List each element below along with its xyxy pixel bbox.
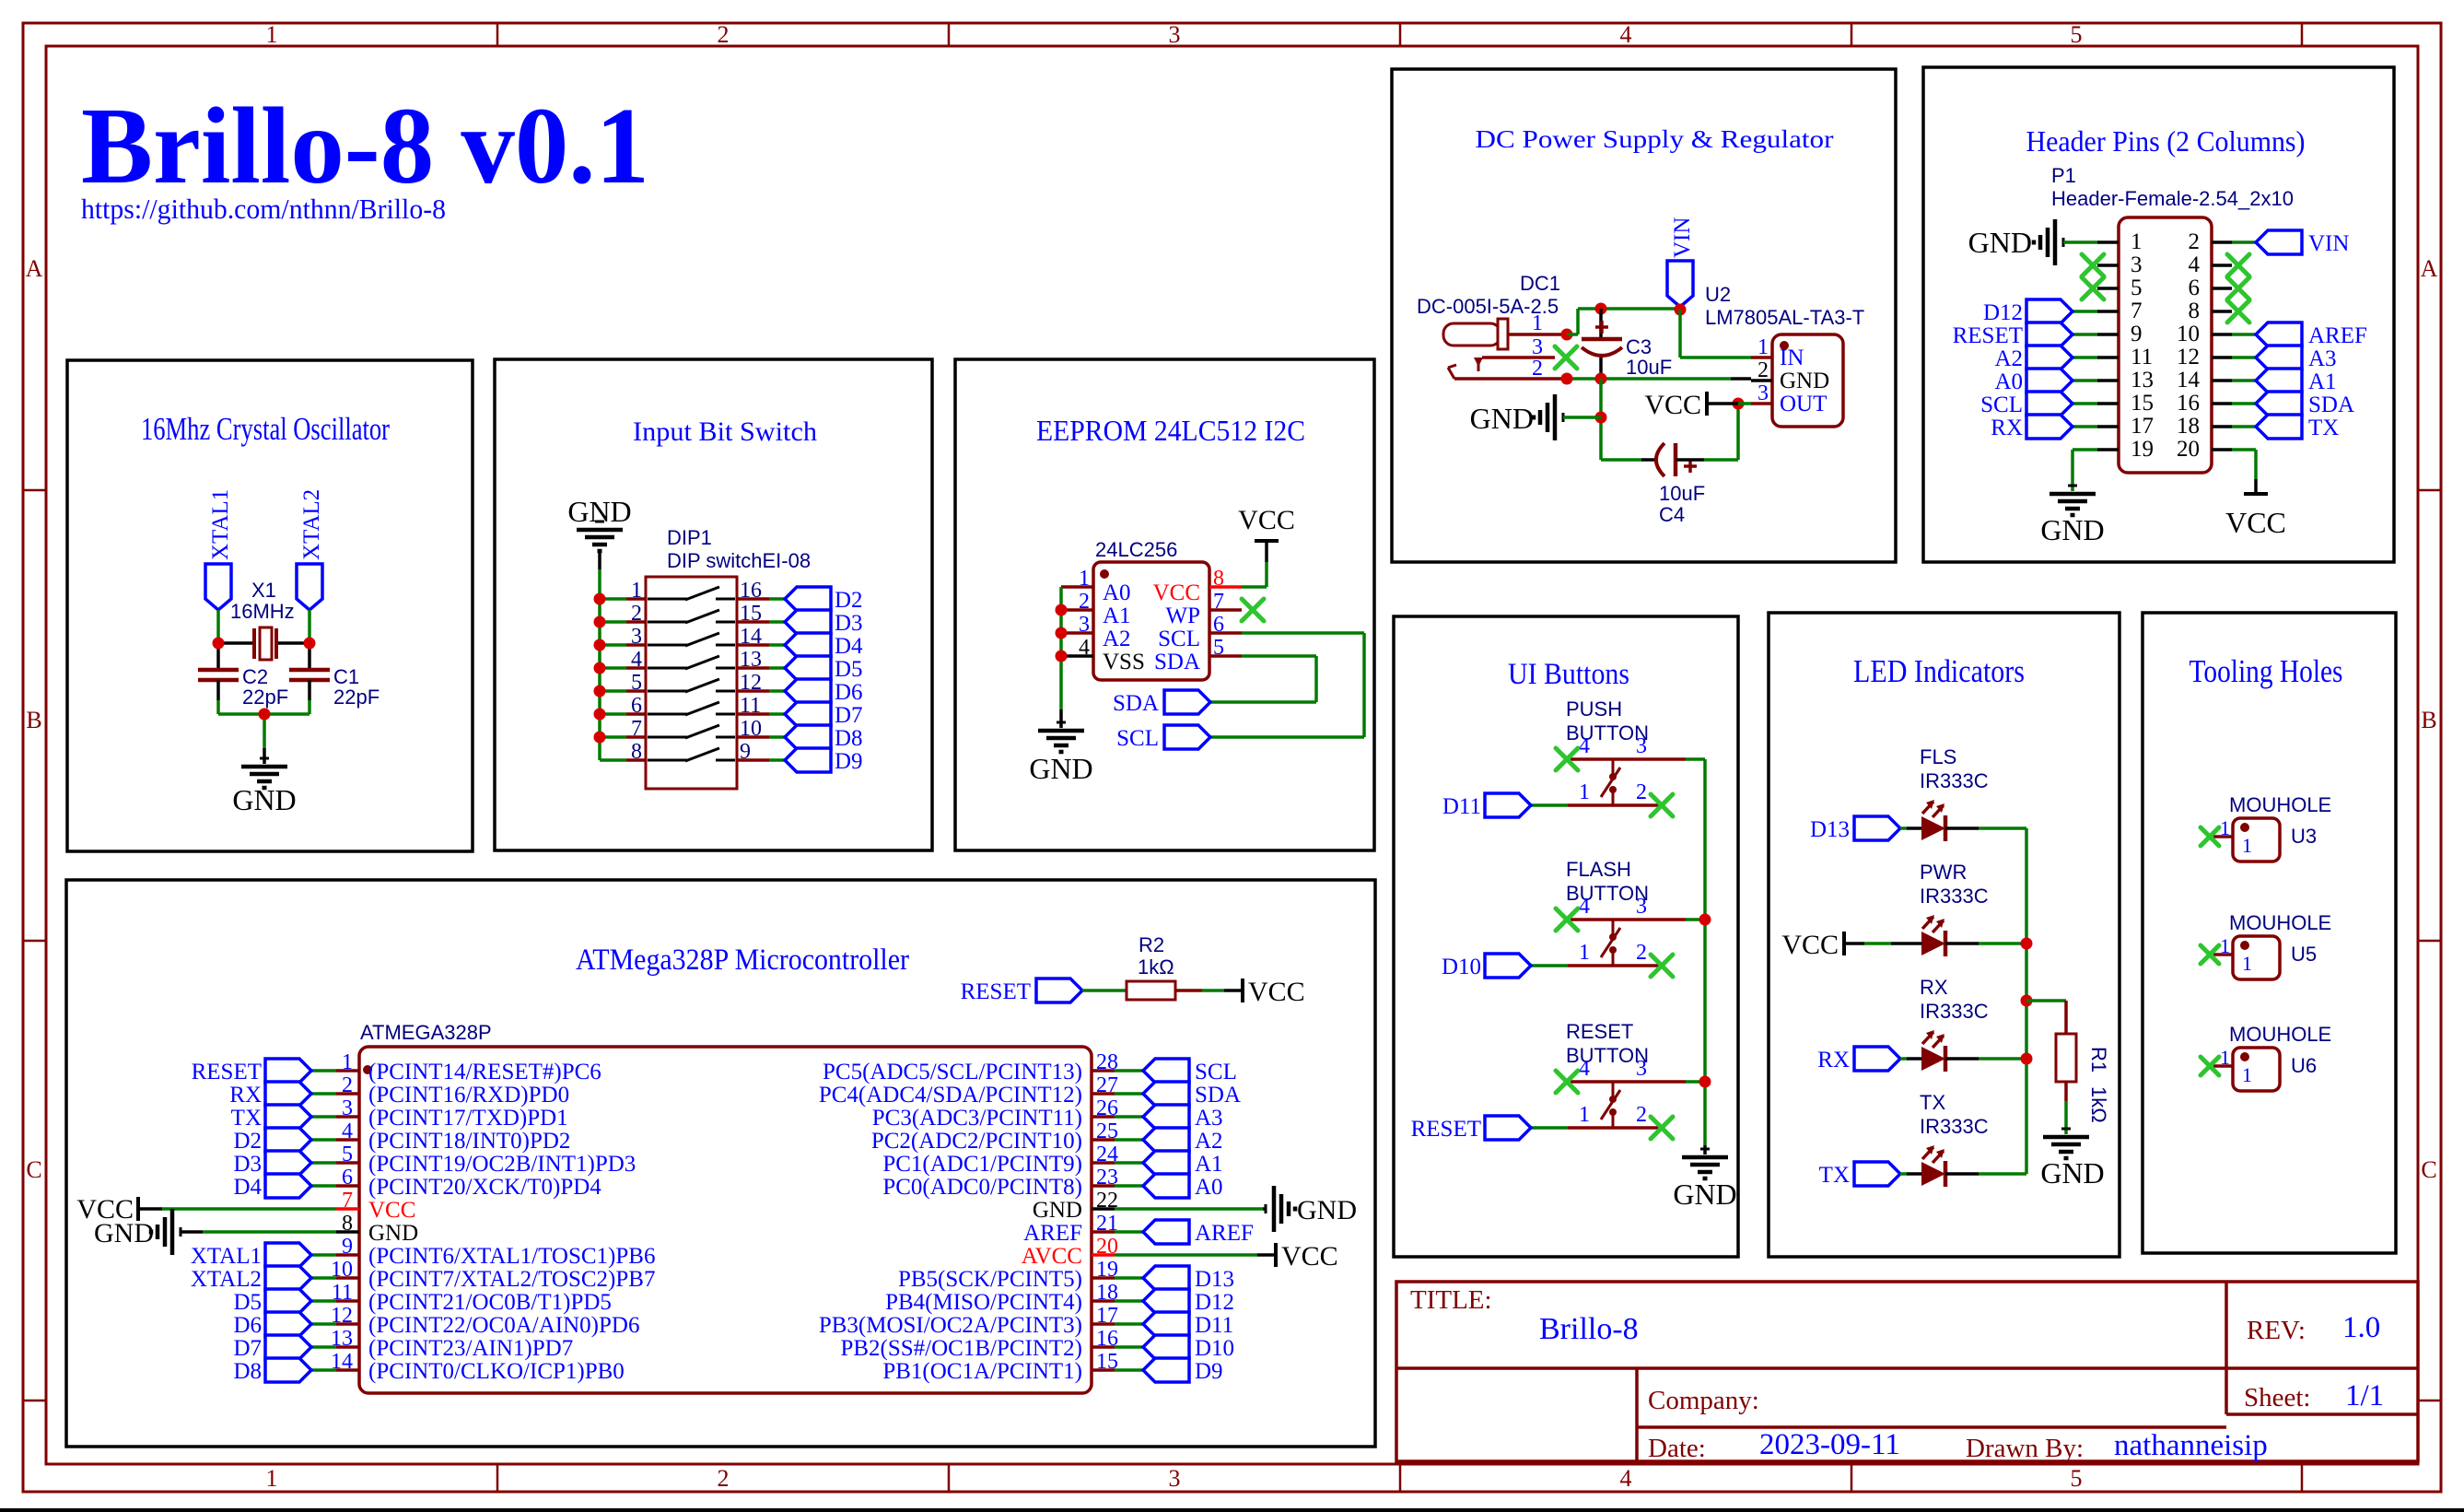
junction VIN node: [1675, 304, 1687, 316]
svg-text:16: 16: [740, 579, 762, 603]
title block dividers: [1396, 1282, 2418, 1461]
label LM7805AL-TA3-T: [1705, 306, 1864, 329]
junction C3 top: [1595, 303, 1607, 315]
wire DIP pin 13 to D5: [769, 666, 785, 670]
svg-text:2: 2: [1636, 1103, 1647, 1127]
wire P1 to A3: [2232, 356, 2256, 359]
wire led FLS cathode to bus: [1945, 826, 2026, 830]
label P1: [2051, 164, 2076, 187]
svg-text:D13: D13: [1195, 1267, 1234, 1292]
P1 pin 15: [2097, 391, 2154, 416]
24LC256 pin 7 (WP): [1166, 590, 1243, 628]
svg-text:1: 1: [1579, 941, 1590, 965]
wire gnd bus to DIP pin 3: [600, 643, 626, 647]
wire ui buttons gnd bus: [1703, 759, 1707, 1155]
svg-text:UI Buttons: UI Buttons: [1508, 658, 1629, 691]
wire led PWR cathode to bus: [1945, 942, 2026, 945]
label PWR IR333C: [1920, 885, 1989, 908]
wire P1 to A0: [2073, 379, 2097, 382]
svg-text:1: 1: [2242, 834, 2252, 857]
svg-text:1: 1: [266, 21, 278, 48]
svg-text:1: 1: [1532, 311, 1543, 335]
svg-text:SDA: SDA: [2308, 393, 2354, 417]
no-connect P1 pin 4: [2227, 254, 2249, 276]
no-connect P1 pin 3: [2082, 254, 2104, 276]
net flag XTAL1 mcu: [191, 1243, 311, 1269]
label DIP switchEI-08: [667, 549, 811, 572]
power symbol VCC r2: [1243, 977, 1305, 1007]
junction flash button gnd: [1699, 914, 1711, 926]
svg-text:VCC: VCC: [368, 1198, 415, 1223]
svg-text:GND: GND: [1033, 1198, 1082, 1223]
svg-text:GND: GND: [368, 1221, 418, 1246]
net flag SCL: [1116, 725, 1210, 751]
section title Tooling Holes: [2190, 653, 2343, 689]
section title LED Indicators: [1853, 653, 2025, 689]
svg-text:SCL: SCL: [1158, 627, 1200, 651]
label PWR: [1920, 861, 1967, 884]
svg-text:1: 1: [2220, 1046, 2230, 1069]
wire gnd stem dip: [598, 553, 601, 599]
svg-text:RESET: RESET: [1566, 1020, 1633, 1043]
wire C4 right: [1676, 404, 1738, 460]
DIP1 switch pole row 2: [648, 610, 735, 623]
push button RESET top contacts pins 4,3: [1571, 1057, 1686, 1082]
net flag D9 mcu right: [1143, 1358, 1223, 1384]
net flag VIN header: [2256, 230, 2349, 256]
label C3 value 10uF: [1626, 356, 1672, 379]
wire P1 to A1: [2232, 379, 2256, 382]
svg-text:3: 3: [1636, 734, 1647, 758]
ground symbol R1: [2043, 1129, 2089, 1158]
svg-text:14: 14: [2177, 368, 2201, 393]
svg-text:XTAL2: XTAL2: [191, 1267, 262, 1292]
svg-text:1: 1: [342, 1050, 353, 1074]
svg-text:17: 17: [2131, 414, 2154, 439]
wire R2 to VCC: [1175, 989, 1243, 992]
section box LED Indicators: [1769, 613, 2120, 1257]
svg-text:GND: GND: [1470, 402, 1534, 435]
net flag D10 button: [1442, 954, 1531, 979]
label DC-005I-5A-2.5: [1417, 295, 1559, 318]
svg-text:OUT: OUT: [1780, 392, 1827, 416]
IC ATMEGA328P body: [359, 1047, 1092, 1393]
label PUSH BUTTON: [1566, 697, 1649, 744]
svg-text:PB5(SCK/PCINT5): PB5(SCK/PCINT5): [898, 1267, 1082, 1292]
label C2: [242, 665, 268, 688]
svg-text:GND: GND: [1297, 1195, 1357, 1225]
resistor R2: [1127, 981, 1175, 1000]
svg-text:18: 18: [2177, 414, 2200, 439]
svg-text:(PCINT16/RXD)PD0: (PCINT16/RXD)PD0: [368, 1083, 569, 1108]
svg-text:(PCINT19/OC2B/INT1)PD3: (PCINT19/OC2B/INT1)PD3: [368, 1152, 636, 1177]
svg-text:24LC256: 24LC256: [1095, 538, 1177, 561]
svg-text:D8: D8: [835, 726, 863, 751]
svg-text:2023-09-11: 2023-09-11: [1759, 1428, 1900, 1461]
no-connect PUSH pin 4: [1556, 748, 1578, 770]
P1 pin 11: [2097, 345, 2153, 369]
section box Input Bit Switch: [495, 359, 932, 850]
svg-text:13: 13: [2131, 368, 2154, 393]
svg-text:7: 7: [2131, 299, 2143, 323]
svg-text:A1: A1: [1195, 1152, 1223, 1177]
svg-text:D9: D9: [1195, 1359, 1223, 1384]
label C1: [333, 665, 359, 688]
svg-text:1: 1: [2131, 229, 2143, 254]
svg-text:C4: C4: [1659, 503, 1685, 526]
net flag A3 mcu right: [1143, 1105, 1223, 1131]
svg-text:IR333C: IR333C: [1920, 885, 1989, 908]
svg-text:D12: D12: [1195, 1290, 1234, 1315]
svg-text:4: 4: [1620, 21, 1632, 48]
24LC256 pin 5 (SDA): [1154, 636, 1242, 674]
svg-text:P1: P1: [2051, 164, 2076, 187]
ATMEGA328P pin 19 (PB5(SCK/PCINT5)): [898, 1258, 1118, 1292]
wire D4 to pin 6: [311, 1184, 336, 1188]
svg-text:PC0(ADC0/PCINT8): PC0(ADC0/PCINT8): [882, 1175, 1082, 1200]
svg-text:3: 3: [1636, 1057, 1647, 1081]
svg-text:A0: A0: [1103, 580, 1131, 605]
wire A2 to pin 25: [1115, 1138, 1143, 1142]
DIP1 pin 4: [626, 648, 646, 672]
svg-text:GND: GND: [567, 495, 631, 528]
title block TITLE label: [1410, 1285, 1492, 1315]
wire XTAL1 to node: [216, 610, 220, 643]
svg-text:(PCINT7/XTAL2/TOSC2)PB7: (PCINT7/XTAL2/TOSC2)PB7: [368, 1267, 655, 1292]
svg-text:VCC: VCC: [1153, 580, 1200, 605]
section title 16Mhz Crystal Oscillator: [141, 411, 390, 447]
ATMEGA328P pin 26 (PC3(ADC3/PCINT11)): [872, 1096, 1118, 1131]
svg-text:B: B: [26, 707, 41, 733]
wire DC1 pin1 up to rail: [1567, 309, 1680, 334]
push button PUSH actuator: [1601, 759, 1620, 805]
wire VCC to led: [1864, 942, 1921, 945]
net flag RESET mcu: [192, 1059, 311, 1084]
title block Sheet label: [2244, 1383, 2311, 1412]
svg-text:D11: D11: [1195, 1313, 1233, 1338]
svg-text:RESET: RESET: [192, 1060, 262, 1084]
svg-text:ATMega328P Microcontroller: ATMega328P Microcontroller: [576, 944, 909, 977]
svg-text:15: 15: [2131, 391, 2154, 416]
junction led bus pwr: [2021, 938, 2033, 950]
svg-text:Drawn By:: Drawn By:: [1966, 1434, 2084, 1463]
LED TX IR333C: [1921, 1145, 1945, 1187]
wire D7 to pin 13: [311, 1345, 336, 1349]
wire gnd bus to DIP pin 8: [600, 758, 626, 762]
svg-text:1: 1: [1079, 567, 1090, 591]
24LC256 pin 1 (A0): [1061, 567, 1131, 605]
svg-text:13: 13: [740, 648, 762, 672]
svg-text:(PCINT23/AIN1)PD7: (PCINT23/AIN1)PD7: [368, 1336, 573, 1361]
net flag A2 header: [1994, 346, 2073, 371]
label GND input bit switch: [567, 495, 631, 528]
svg-text:2: 2: [1757, 358, 1769, 382]
wire D10 to FLASH pin1: [1531, 964, 1568, 967]
P1 pin 1: [2097, 229, 2143, 254]
svg-text:16Mhz Crystal Oscillator: 16Mhz Crystal Oscillator: [141, 411, 390, 447]
net flag D13 led: [1810, 816, 1900, 842]
net flag SDA mcu right: [1143, 1082, 1241, 1108]
svg-text:(PCINT21/OC0B/T1)PD5: (PCINT21/OC0B/T1)PD5: [368, 1290, 612, 1315]
LED PWR IR333C: [1921, 915, 1945, 956]
U2 pin 3 OUT: [1751, 381, 1827, 416]
wire TX to led: [1900, 1172, 1921, 1176]
svg-text:Date:: Date:: [1648, 1434, 1706, 1463]
svg-text:D3: D3: [233, 1152, 262, 1177]
wire DIP pin 11 to D7: [769, 712, 785, 716]
svg-text:PWR: PWR: [1920, 861, 1967, 884]
svg-text:2: 2: [1636, 780, 1647, 804]
label R2: [1139, 933, 1164, 956]
wire RX to pin 2: [311, 1092, 336, 1096]
24LC256 pin 6 (SCL): [1158, 613, 1242, 651]
wire RESET to R2: [1082, 989, 1127, 992]
svg-text:D7: D7: [233, 1336, 262, 1361]
net flag D3 mcu: [233, 1151, 311, 1177]
svg-text:Input Bit Switch: Input Bit Switch: [633, 416, 817, 447]
wire led RX cathode to bus: [1945, 1057, 2026, 1061]
svg-text:1: 1: [1757, 335, 1769, 359]
wire VCC to mcu pin7: [162, 1207, 336, 1211]
LED FLS IR333C: [1921, 800, 1945, 841]
wire D9 to pin 15: [1115, 1368, 1143, 1372]
DIP1 pin 5: [626, 671, 646, 695]
svg-text:PC1(ADC1/PCINT9): PC1(ADC1/PCINT9): [882, 1152, 1082, 1177]
svg-text:LED Indicators: LED Indicators: [1853, 653, 2025, 689]
svg-text:3: 3: [1079, 613, 1090, 637]
svg-text:10uF: 10uF: [1626, 356, 1672, 379]
svg-text:PC3(ADC3/PCINT11): PC3(ADC3/PCINT11): [872, 1106, 1082, 1131]
ATMEGA328P pin 15 (PB1(OC1A/PCINT1)): [882, 1350, 1118, 1384]
label R1: [2087, 1047, 2110, 1072]
svg-text:3: 3: [1169, 21, 1181, 48]
P1 pin 19: [2097, 437, 2154, 462]
wire DIP pin 10 to D8: [769, 735, 785, 739]
wire bus to R1: [2026, 1001, 2066, 1034]
svg-text:RX: RX: [1991, 416, 2023, 440]
wire RX to led: [1900, 1057, 1921, 1061]
svg-text:Header Pins (2 Columns): Header Pins (2 Columns): [2026, 124, 2306, 158]
net flag D4 mcu: [233, 1174, 311, 1200]
ATMEGA328P pin 23 (PC0(ADC0/PCINT8)): [882, 1166, 1118, 1200]
svg-text:D2: D2: [233, 1129, 262, 1154]
push button PUSH bottom contacts pins 1,2: [1568, 780, 1660, 805]
wire gnd rail down: [1599, 379, 1603, 460]
wire P1 to D12: [2073, 310, 2097, 313]
svg-text:PB3(MOSI/OC2A/PCINT3): PB3(MOSI/OC2A/PCINT3): [819, 1313, 1082, 1338]
net flag D5: [785, 656, 863, 682]
push button RESET actuator: [1601, 1082, 1620, 1128]
title block title value Brillo-8: [1539, 1312, 1639, 1346]
no-connect P1 pin 6: [2227, 277, 2249, 299]
P1 pin 14: [2177, 368, 2232, 393]
section box DC Power Supply and Regulator: [1392, 69, 1896, 562]
svg-text:1: 1: [2220, 934, 2230, 957]
svg-text:5: 5: [1213, 636, 1224, 660]
DIP1 pin 15: [737, 602, 769, 626]
wire P1 to SDA: [2232, 402, 2256, 405]
wire gnd bus to DIP pin 4: [600, 666, 626, 670]
section title UI Buttons: [1508, 658, 1629, 691]
svg-text:(PCINT6/XTAL1/TOSC1)PB6: (PCINT6/XTAL1/TOSC1)PB6: [368, 1244, 655, 1269]
net flag D9: [785, 748, 863, 774]
push button FLASH top contacts pins 4,3: [1571, 895, 1686, 920]
junction DIP row 5: [594, 686, 606, 697]
svg-text:12: 12: [2177, 345, 2200, 369]
net flag D11 mcu right: [1143, 1312, 1233, 1338]
svg-text:A: A: [2421, 255, 2438, 282]
label DIP1: [667, 526, 712, 549]
no-connect P1 pin 8: [2227, 300, 2249, 322]
title block Company label: [1648, 1386, 1759, 1415]
wire C1 down: [308, 680, 311, 714]
ATMEGA328P pin 22 (GND): [1033, 1189, 1118, 1223]
P1 pin 18: [2177, 414, 2232, 439]
net flag D10 mcu right: [1143, 1335, 1234, 1361]
net flag RESET header: [1953, 322, 2073, 348]
svg-text:D9: D9: [835, 749, 863, 774]
DIP1 switch pole row 3: [648, 633, 735, 646]
section title Header Pins (2 Columns): [2026, 124, 2306, 158]
svg-text:1: 1: [2242, 1063, 2252, 1086]
ATMEGA328P pin 8 (GND): [336, 1212, 418, 1246]
net flag SCL mcu right: [1143, 1059, 1237, 1084]
svg-text:2: 2: [631, 602, 642, 626]
svg-text:SCL: SCL: [1195, 1060, 1237, 1084]
svg-text:D3: D3: [835, 611, 863, 636]
ATMEGA328P pin 14 ((PCINT0/CLKO/ICP1)PB0): [331, 1350, 625, 1384]
wire D2 to pin 4: [311, 1138, 336, 1142]
svg-text:RESET: RESET: [961, 979, 1031, 1004]
net flag D12 header: [1983, 299, 2073, 325]
label R2 value 1kΩ: [1138, 955, 1174, 979]
push button FLASH actuator: [1601, 920, 1620, 966]
junction bottom rail: [259, 709, 271, 721]
net flag D6: [785, 679, 863, 705]
label R1 value 1kΩ: [2087, 1086, 2110, 1123]
no-connect U3 pin 1: [2201, 827, 2219, 846]
junction led bus r1: [2021, 995, 2033, 1007]
net flag A0 mcu right: [1143, 1174, 1223, 1200]
wire P1 to RX: [2073, 425, 2097, 428]
wire DIP pin 14 to D4: [769, 643, 785, 647]
wire DIP pin 15 to D3: [769, 620, 785, 624]
junction DIP row 2: [594, 616, 606, 628]
label GND eeprom: [1029, 752, 1092, 785]
svg-text:12: 12: [740, 671, 762, 695]
svg-text:Sheet:: Sheet:: [2244, 1383, 2311, 1412]
svg-text:U2: U2: [1705, 283, 1731, 306]
DIP1 switch pole row 1: [648, 587, 735, 600]
svg-text:B: B: [2421, 707, 2436, 733]
net flag TX mcu: [231, 1105, 311, 1131]
mounting hole U3 pin 1: [2213, 816, 2233, 839]
24LC256 pin 3 (A2): [1061, 613, 1131, 651]
svg-text:D11: D11: [1442, 794, 1481, 819]
wire A0 to pin 23: [1115, 1184, 1143, 1188]
push button FLASH bottom contacts pins 1,2: [1568, 941, 1660, 966]
svg-text:4: 4: [1579, 734, 1590, 758]
connector DC1 barrel jack: [1443, 319, 1508, 379]
label RX: [1920, 976, 1948, 999]
wire gnd bus to DIP pin 2: [600, 620, 626, 624]
mounting hole U5 body: [2233, 936, 2280, 979]
mounting hole U5 pin 1: [2213, 934, 2233, 957]
svg-text:AVCC: AVCC: [1022, 1244, 1082, 1269]
label MOUHOLE U6: [2229, 1023, 2331, 1046]
ATMEGA328P pin 28 (PC5(ADC5/SCL/PCINT13)): [823, 1050, 1118, 1084]
P1 pin 16: [2177, 391, 2232, 416]
svg-text:8: 8: [2189, 299, 2201, 323]
wire P1 pin19 to ground: [2073, 450, 2097, 491]
svg-text:RESET: RESET: [1411, 1117, 1481, 1142]
svg-text:3: 3: [1636, 895, 1647, 919]
junction DIP row 1: [594, 593, 606, 605]
wire P1 pin20 to VCC: [2232, 450, 2256, 494]
net flag A2 mcu right: [1143, 1128, 1223, 1154]
crystal X1: [254, 627, 276, 660]
svg-text:16: 16: [2177, 391, 2200, 416]
svg-text:TX: TX: [2308, 416, 2339, 440]
junction DC1 pin1: [1561, 329, 1573, 341]
label C2 value 22pF: [242, 686, 288, 709]
power symbol VCC eeprom: [1238, 505, 1295, 562]
power symbol VCC led: [1781, 930, 1864, 960]
svg-text:VCC: VCC: [2225, 506, 2286, 539]
svg-text:15: 15: [740, 602, 762, 626]
svg-text:GND: GND: [2040, 1156, 2104, 1190]
wire crystal right: [276, 641, 309, 645]
wire P1 pin2 to VIN: [2232, 240, 2256, 244]
label TX IR333C: [1920, 1115, 1989, 1138]
no-connect eeprom WP: [1242, 599, 1264, 621]
wire FLASH pin3 to gnd bus: [1686, 918, 1705, 921]
DIP1 pin 7: [626, 717, 646, 741]
wire D11 to PUSH pin1: [1531, 803, 1568, 807]
title block Date label: [1648, 1434, 1706, 1463]
svg-text:5: 5: [631, 671, 642, 695]
mounting hole U6 pin 1: [2213, 1046, 2233, 1069]
push button PUSH top contacts pins 4,3: [1571, 734, 1686, 759]
wire D10 to pin 16: [1115, 1345, 1143, 1349]
svg-text:VCC: VCC: [1248, 977, 1305, 1007]
regulator U2 body: [1772, 334, 1843, 427]
DC1 pin 2: [1454, 357, 1567, 381]
section title DC Power Supply & Regulator: [1476, 125, 1834, 153]
svg-text:XTAL2: XTAL2: [299, 489, 324, 560]
wire D13 to led: [1900, 826, 1921, 830]
section box Tooling Holes: [2143, 613, 2396, 1253]
svg-text:1: 1: [266, 1465, 278, 1492]
svg-text:MOUHOLE: MOUHOLE: [2229, 1023, 2331, 1046]
svg-text:SDA: SDA: [1113, 691, 1159, 716]
label U3: [2291, 825, 2317, 848]
no-connect FLASH pin 4: [1556, 908, 1578, 931]
title block sheet value 1/1: [2345, 1379, 2384, 1412]
wire DIP pin 16 to D2: [769, 597, 785, 601]
wire VCC to eeprom pin 8: [1242, 562, 1267, 587]
net flag SDA header: [2256, 392, 2354, 417]
wire R1 to ground: [2064, 1082, 2068, 1134]
svg-text:1: 1: [2242, 952, 2252, 975]
wire D12 to pin 18: [1115, 1299, 1143, 1303]
junction DIP row 6: [594, 709, 606, 721]
wire RESET to RESET pin1: [1531, 1126, 1568, 1130]
label ATMEGA328P: [360, 1021, 492, 1044]
svg-text:D4: D4: [233, 1175, 262, 1200]
ATMEGA328P pin 18 (PB4(MISO/PCINT4)): [885, 1281, 1118, 1315]
svg-text:IR333C: IR333C: [1920, 1115, 1989, 1138]
